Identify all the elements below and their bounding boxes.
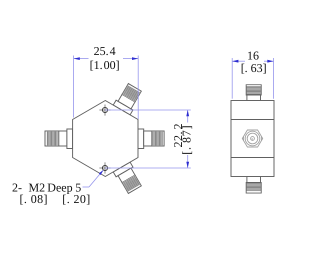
svg-text:[. 20]: [. 20] [62, 192, 90, 206]
svg-text:[. 63]: [. 63] [241, 61, 267, 75]
svg-text:[1. 00]: [1. 00] [90, 58, 120, 72]
svg-text:[. 08]: [. 08] [20, 192, 48, 206]
svg-text:[. 87]: [. 87] [180, 125, 194, 155]
svg-text:25. 4: 25. 4 [94, 44, 116, 58]
